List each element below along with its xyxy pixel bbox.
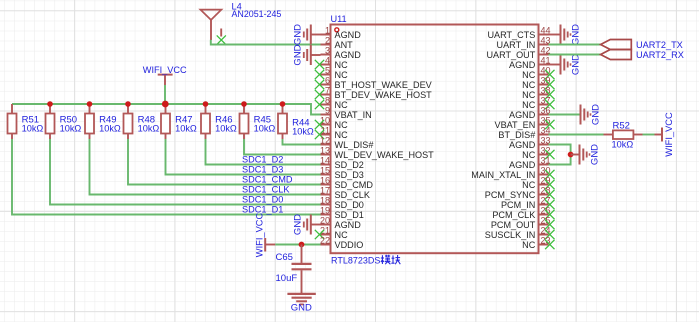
svg-text:10kΩ: 10kΩ [612, 139, 634, 149]
svg-text:C65: C65 [276, 252, 293, 263]
pin 36 AGND [509, 105, 550, 120]
wire pin33/pin31 AGND loop [549, 145, 571, 165]
ground GND (left) [293, 214, 321, 235]
ground GND pins 33/31 [580, 144, 601, 165]
svg-text:PCM_SYNC: PCM_SYNC [485, 190, 536, 200]
pin 4 NC [315, 55, 348, 70]
resistor R52 [604, 130, 643, 139]
port UART2_TX [601, 40, 632, 50]
svg-text:BT_HOST_WAKE_DEV: BT_HOST_WAKE_DEV [335, 80, 433, 90]
pin 38 NC [522, 85, 554, 100]
wire pin34 BT_DIS# to R52 [549, 134, 604, 136]
svg-text:SDC1_D3: SDC1_D3 [242, 165, 283, 175]
svg-text:RTL8723DS: RTL8723DS [331, 256, 380, 266]
svg-text:GND: GND [570, 24, 581, 45]
svg-text:SD_D0: SD_D0 [335, 200, 364, 210]
svg-text:R52: R52 [613, 120, 630, 131]
wire R46 bottom to U11 [206, 139, 321, 165]
svg-text:20: 20 [320, 215, 330, 225]
svg-text:UART_CTS: UART_CTS [487, 30, 535, 40]
svg-text:10uF: 10uF [276, 273, 298, 284]
svg-text:VDDIO: VDDIO [335, 240, 364, 250]
svg-text:10kΩ: 10kΩ [175, 124, 197, 134]
resistor R50 [46, 104, 55, 139]
junction bus [203, 101, 209, 107]
resistor R47 [161, 104, 170, 139]
svg-text:14: 14 [320, 155, 330, 165]
junction bus [47, 101, 53, 107]
svg-text:WL_DEV_WAKE_HOST: WL_DEV_WAKE_HOST [335, 150, 435, 160]
svg-text:UART2_RX: UART2_RX [636, 50, 684, 60]
svg-text:1: 1 [325, 25, 330, 35]
svg-text:6: 6 [325, 75, 330, 85]
pin 10 NC [315, 115, 348, 130]
svg-text:NC: NC [335, 120, 349, 130]
svg-text:UART_OUT: UART_OUT [486, 50, 535, 60]
port UART2_RX [601, 50, 632, 60]
capacitor C65 [292, 245, 312, 294]
svg-text:GND: GND [291, 303, 312, 314]
svg-text:WL_DIS#: WL_DIS# [335, 140, 375, 150]
svg-text:AGND: AGND [335, 220, 362, 230]
resistor R51 [8, 104, 17, 139]
svg-text:NC: NC [335, 60, 349, 70]
junction bus [87, 101, 93, 107]
wire pin22 VDDIO [275, 244, 320, 246]
svg-text:4: 4 [325, 55, 330, 65]
resistor R45 [240, 104, 249, 139]
pin 28 PCM_SYNC [485, 185, 555, 200]
svg-text:SD_D2: SD_D2 [335, 160, 364, 170]
svg-text:7: 7 [325, 85, 330, 95]
svg-text:U11: U11 [331, 14, 347, 24]
pin 15 SD_D3 [320, 165, 364, 180]
pin 35 VBAT_EN [495, 115, 555, 130]
ground GND (left) [293, 44, 321, 65]
pin 19 SD_D1 [320, 205, 364, 220]
pin 14 SD_D2 [320, 155, 364, 170]
no-ERC cross antenna pin [217, 35, 226, 44]
wire R47 bottom to U11 [166, 139, 321, 175]
svg-text:13: 13 [320, 145, 330, 155]
pin 26 PCM_CLK [492, 205, 554, 220]
wire pin41 to ground [549, 64, 561, 66]
wire junction to ground [571, 154, 580, 156]
svg-text:NC: NC [522, 180, 536, 190]
svg-text:GND: GND [589, 144, 600, 165]
svg-text:NC: NC [522, 90, 536, 100]
svg-text:NC: NC [335, 230, 349, 240]
svg-text:SD_CMD: SD_CMD [335, 180, 374, 190]
pin 40 NC [522, 65, 554, 80]
svg-text:AGND: AGND [335, 50, 362, 60]
svg-text:10kΩ: 10kΩ [60, 124, 82, 134]
ground GND (left) [293, 24, 321, 45]
svg-text:UART_IN: UART_IN [497, 40, 536, 50]
pin 41 AGND [509, 55, 550, 70]
svg-text:MAIN_XTAL_IN: MAIN_XTAL_IN [471, 170, 535, 180]
junction bus [241, 101, 247, 107]
svg-text:15: 15 [320, 165, 330, 175]
junction bus [280, 101, 286, 107]
svg-text:3: 3 [325, 45, 330, 55]
svg-text:SD_D3: SD_D3 [335, 170, 364, 180]
ground GND below C65 [287, 294, 315, 314]
svg-text:5: 5 [325, 65, 330, 75]
svg-text:NC: NC [335, 70, 349, 80]
pin 27 PCM_IN [501, 195, 555, 210]
pin 2 ANT [321, 35, 354, 50]
pin 6 BT_HOST_WAKE_DEV [315, 75, 433, 90]
power port WIFI_VCC (right) [655, 112, 675, 157]
svg-text:NC: NC [522, 150, 536, 160]
pin 24 SUSCLK_IN [485, 225, 555, 240]
svg-text:PCM_OUT: PCM_OUT [491, 220, 536, 230]
wire WIFI_VCC to bus [164, 85, 166, 104]
pin 5 NC [315, 65, 348, 80]
svg-text:SDC1_CMD: SDC1_CMD [242, 175, 293, 185]
svg-text:SD_D1: SD_D1 [335, 210, 364, 220]
svg-text:PCM_IN: PCM_IN [501, 200, 535, 210]
wire R44 bottom to U11 [283, 139, 321, 145]
junction bus WIFI_VCC [162, 101, 169, 108]
svg-text:SUSCLK_IN: SUSCLK_IN [485, 230, 536, 240]
ground GND pin 41 [561, 54, 582, 75]
wire R52 to WIFI_VCC [643, 134, 655, 136]
svg-text:22: 22 [320, 235, 330, 245]
svg-text:10kΩ: 10kΩ [138, 124, 160, 134]
pin 1 AGND [321, 25, 362, 40]
svg-text:NC: NC [522, 80, 536, 90]
pin-1 marker circle [335, 28, 339, 32]
pin 12 WL_DIS# [320, 135, 374, 150]
svg-text:BT_DEV_WAKE_HOST: BT_DEV_WAKE_HOST [335, 90, 433, 100]
svg-text:ANT: ANT [335, 40, 354, 50]
pin 34 BT_DIS# [498, 125, 550, 140]
svg-text:GND: GND [293, 44, 304, 65]
svg-text:GND: GND [293, 24, 304, 45]
wire pin43 UART_IN to port [549, 44, 601, 46]
pin 13 WL_DEV_WAKE_HOST [320, 145, 434, 160]
ground GND pin 44 [561, 24, 582, 45]
pin 16 SD_CMD [320, 175, 373, 190]
svg-text:GND: GND [293, 214, 304, 235]
svg-text:AGND: AGND [509, 110, 536, 120]
svg-text:19: 19 [320, 205, 330, 215]
svg-text:10kΩ: 10kΩ [215, 124, 237, 134]
svg-text:12: 12 [320, 135, 330, 145]
pin 44 UART_CTS [487, 25, 550, 40]
svg-text:2: 2 [325, 35, 330, 45]
part name RTL8723DS module [331, 255, 400, 266]
svg-text:GND: GND [590, 104, 601, 125]
pin 9 VBAT_IN [321, 105, 372, 120]
power port WIFI_VCC (bottom-left) [255, 213, 276, 258]
svg-text:10kΩ: 10kΩ [99, 124, 121, 134]
svg-text:PCM_CLK: PCM_CLK [492, 210, 535, 220]
svg-text:SDC1_D2: SDC1_D2 [242, 155, 283, 165]
resistor R48 [124, 104, 133, 139]
junction pin33 ground [568, 152, 574, 158]
svg-text:NC: NC [522, 70, 536, 80]
wire R48 bottom to U11 [128, 139, 321, 185]
pin 23 NC [522, 235, 554, 250]
resistor R49 [85, 104, 94, 139]
junction VDDIO [299, 242, 305, 248]
pin 29 NC [522, 175, 554, 190]
svg-text:NC: NC [522, 240, 536, 250]
wire pin36 AGND to ground [549, 114, 581, 116]
power port WIFI_VCC (top) [143, 65, 187, 85]
pin 43 UART_IN [497, 35, 551, 50]
junction bus [125, 101, 131, 107]
svg-text:AGND: AGND [335, 30, 362, 40]
pin 3 AGND [321, 45, 362, 60]
svg-text:WIFI_VCC: WIFI_VCC [255, 213, 265, 258]
svg-text:11: 11 [321, 125, 330, 135]
svg-text:16: 16 [320, 175, 330, 185]
pin 21 NC [315, 225, 348, 240]
pin 20 AGND [320, 215, 361, 230]
svg-text:10: 10 [320, 115, 330, 125]
antenna L4 [200, 10, 221, 40]
svg-text:WIFI_VCC: WIFI_VCC [664, 112, 674, 157]
pin 32 NC [522, 145, 554, 160]
pin 8 NC [315, 95, 348, 110]
svg-text:10kΩ: 10kΩ [254, 124, 276, 134]
svg-text:AGND: AGND [509, 60, 536, 70]
svg-text:21: 21 [320, 225, 330, 235]
pin 42 UART_OUT [486, 45, 550, 60]
resistor R46 [201, 104, 210, 139]
svg-text:8: 8 [325, 95, 330, 105]
svg-text:VBAT_IN: VBAT_IN [335, 110, 372, 120]
svg-text:VBAT_EN: VBAT_EN [495, 120, 536, 130]
resistor R44 [278, 104, 287, 139]
pin 17 SD_CLK [320, 185, 370, 200]
svg-text:NC: NC [335, 130, 349, 140]
pin 18 SD_D0 [320, 195, 364, 210]
svg-text:9: 9 [325, 105, 330, 115]
svg-text:17: 17 [320, 185, 330, 195]
svg-text:AGND: AGND [509, 160, 536, 170]
pin 25 PCM_OUT [491, 215, 555, 230]
wire R49 bottom to U11 [90, 139, 321, 195]
wire R51 bottom to U11 [12, 139, 321, 215]
svg-text:SDC1_CLK: SDC1_CLK [242, 185, 290, 195]
wire pin44 to ground [549, 34, 561, 36]
wire pin42 UART_OUT to port [549, 54, 601, 56]
junction bus [163, 101, 169, 107]
svg-text:SDC1_D0: SDC1_D0 [242, 195, 283, 205]
pin 39 NC [522, 75, 554, 90]
pin 30 MAIN_XTAL_IN [471, 165, 554, 180]
pin 7 BT_DEV_WAKE_HOST [315, 85, 432, 100]
svg-text:AN2051-245: AN2051-245 [232, 9, 282, 19]
pin 11 NC [315, 125, 348, 140]
svg-text:SD_CLK: SD_CLK [335, 190, 370, 200]
svg-text:NC: NC [522, 100, 536, 110]
svg-text:18: 18 [320, 195, 330, 205]
svg-text:10kΩ: 10kΩ [292, 127, 314, 137]
svg-text:AGND: AGND [509, 140, 536, 150]
pin 22 VDDIO [320, 235, 363, 250]
wire antenna to U11 pin 2 ANT [211, 40, 321, 45]
svg-text:UART2_TX: UART2_TX [636, 40, 683, 50]
pin 37 NC [522, 95, 554, 110]
pin 31 AGND [509, 155, 550, 170]
ground GND pin 36 [581, 104, 602, 125]
wire pull-up bus VBAT_IN [12, 104, 321, 115]
wire R50 bottom to U11 [50, 139, 321, 205]
wire R45 bottom to U11 [244, 139, 321, 155]
IC U11 RTL8723DS body [331, 25, 539, 254]
svg-text:NC: NC [335, 100, 349, 110]
svg-text:BT_DIS#: BT_DIS# [498, 130, 536, 140]
svg-text:GND: GND [570, 54, 581, 75]
pin 33 AGND [509, 135, 550, 150]
svg-text:10kΩ: 10kΩ [22, 124, 44, 134]
svg-text:WIFI_VCC: WIFI_VCC [143, 65, 187, 75]
